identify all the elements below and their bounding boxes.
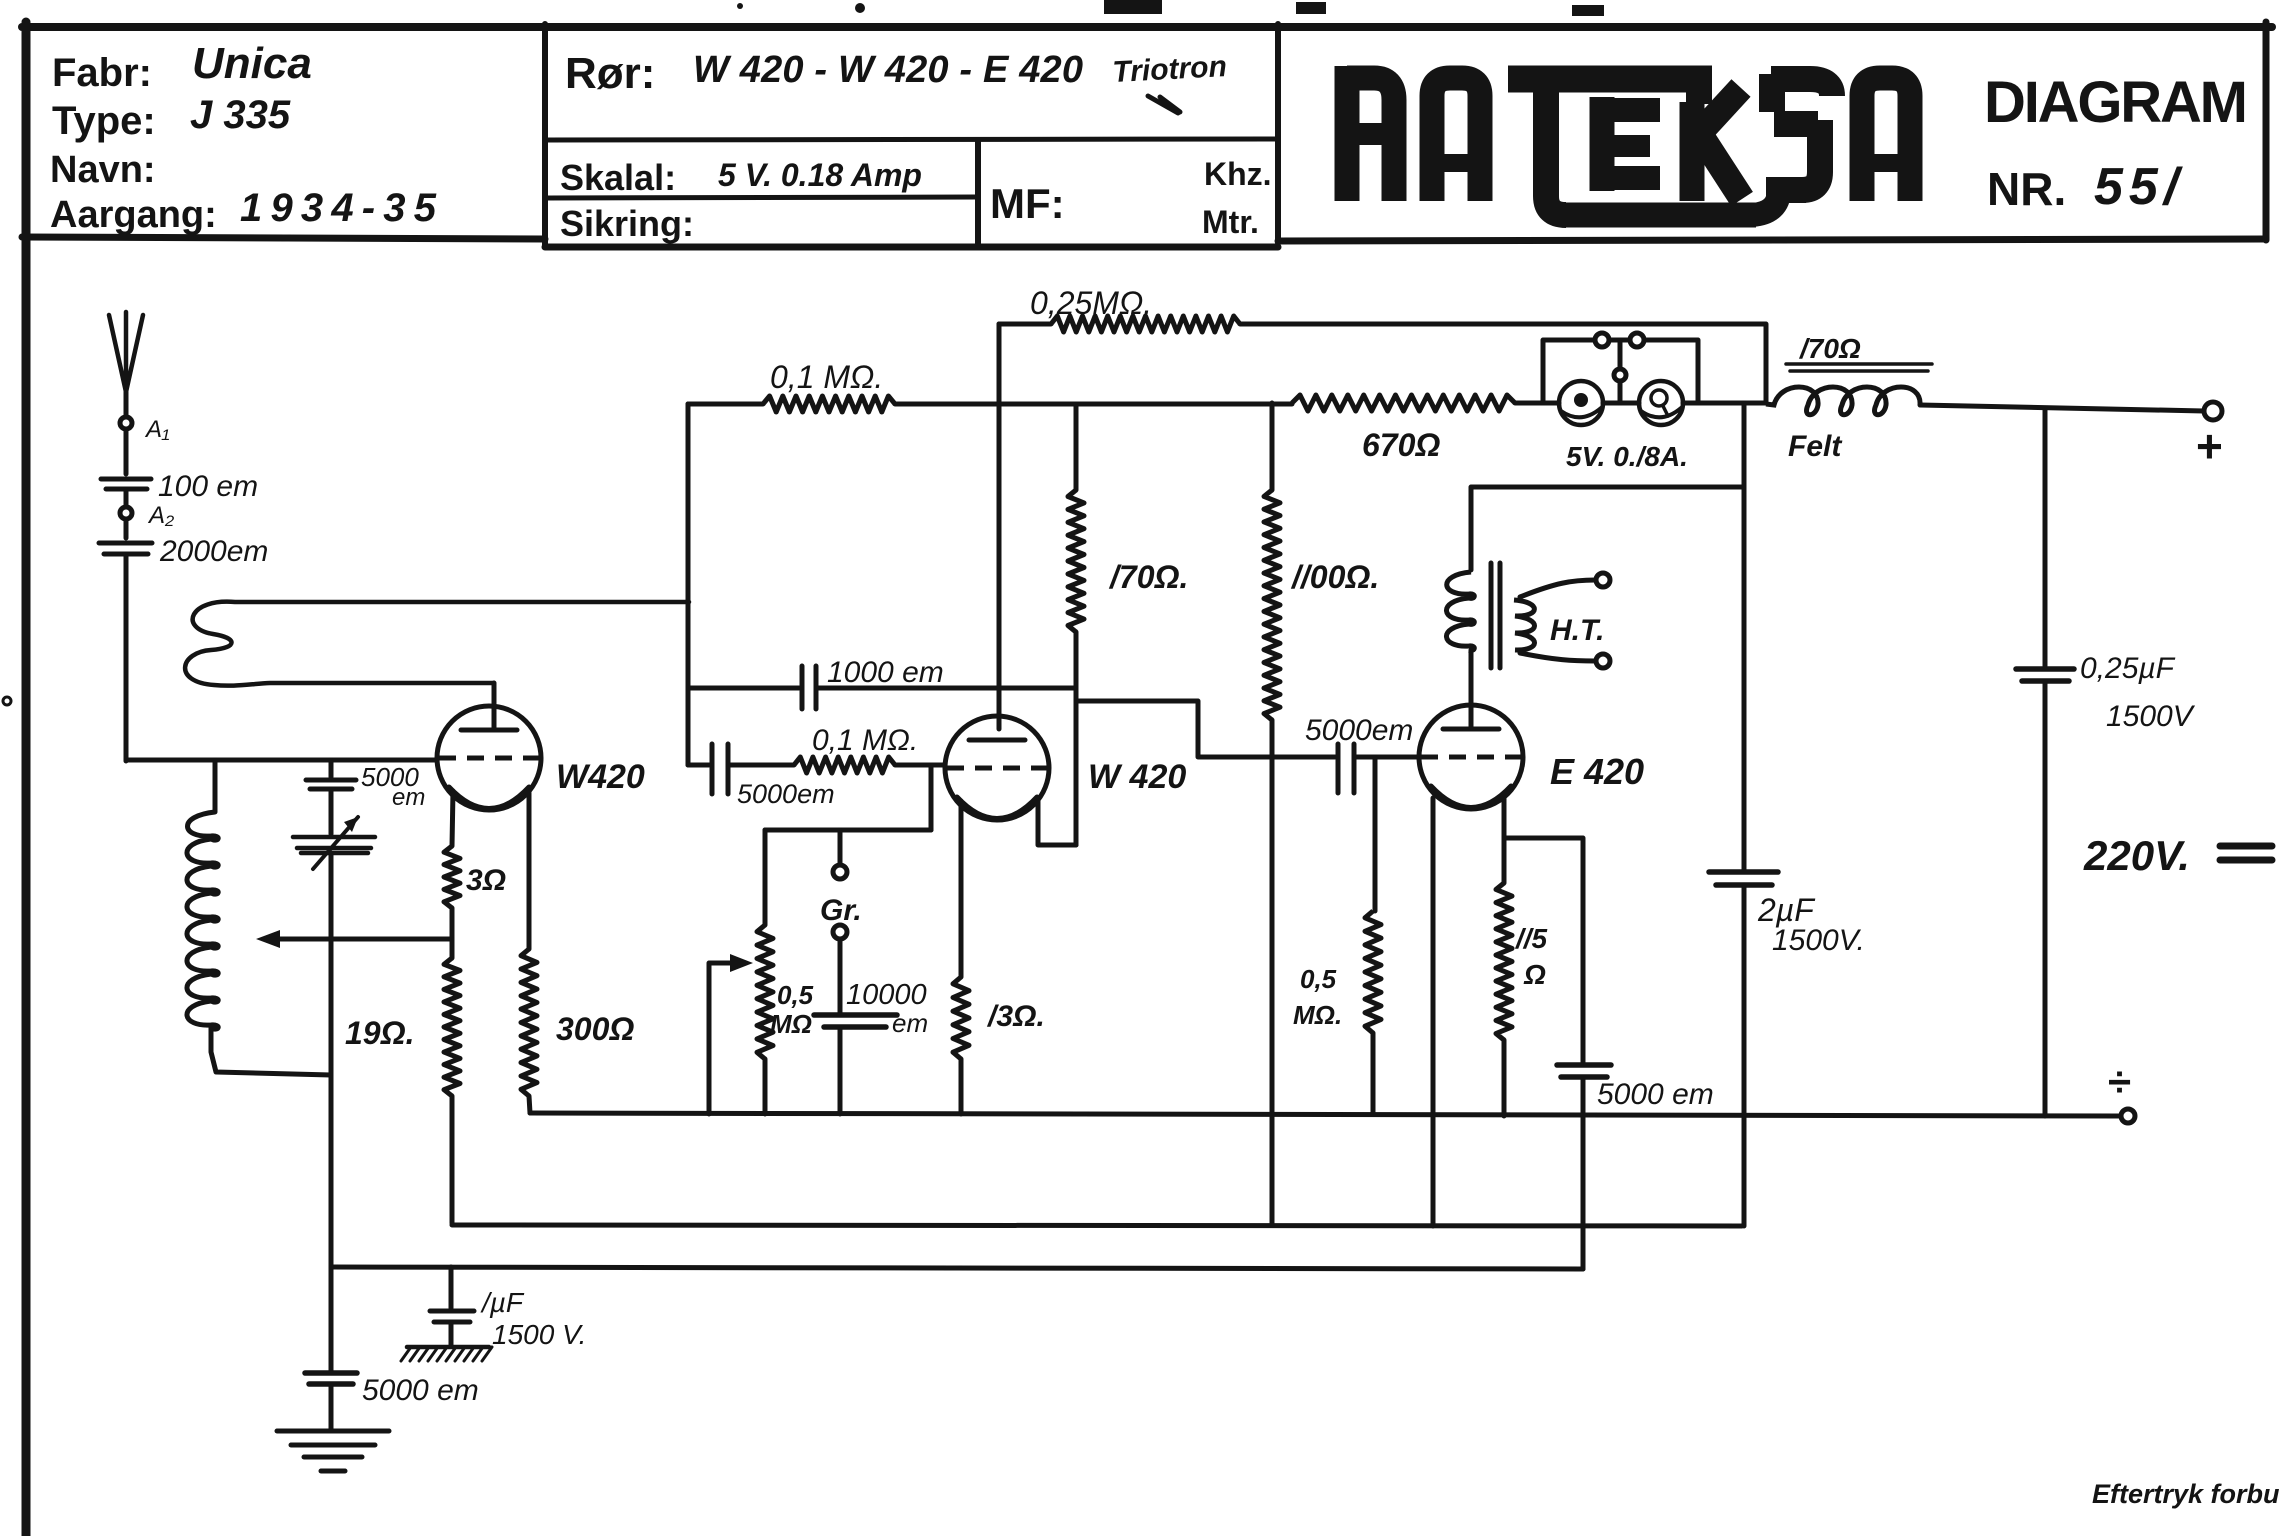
wire pot top bbox=[763, 830, 768, 925]
label Gr bbox=[820, 894, 862, 927]
wire lamp out bbox=[1683, 401, 1766, 406]
wire 115 top bbox=[1502, 838, 1507, 883]
wire fil right V1 bbox=[527, 793, 532, 949]
wire 19ohm down bbox=[452, 1096, 453, 1225]
speck 3 bbox=[1572, 5, 1604, 16]
terminal Gr lower bbox=[833, 925, 847, 939]
svg-text:A₂: A₂ bbox=[147, 502, 174, 529]
capacitor 2000cm bbox=[99, 543, 152, 554]
wire output coupling bbox=[1076, 701, 1335, 757]
label NR bbox=[1987, 163, 2066, 215]
lamp box bbox=[1543, 340, 1698, 403]
wire anode lead V2 bbox=[1038, 799, 1076, 845]
title block skalal underline bbox=[548, 197, 978, 198]
title block MF divider bbox=[975, 140, 981, 247]
wire cathode cap down bbox=[1581, 1077, 1586, 1269]
wire cap to resistor bbox=[688, 763, 794, 768]
speck 4 bbox=[737, 3, 865, 13]
tube V1 W420 bbox=[437, 706, 541, 810]
RATEKSA logo bbox=[1347, 66, 1910, 215]
label 5000cm coupling1 bbox=[737, 779, 835, 809]
svg-text:0,25MΩ.: 0,25MΩ. bbox=[1030, 285, 1152, 321]
wire gridleak top bbox=[1373, 757, 1378, 911]
svg-text:Sikring:: Sikring: bbox=[560, 203, 694, 244]
wire grid lead tube1 bbox=[492, 683, 497, 729]
svg-text:MF:: MF: bbox=[990, 180, 1065, 227]
resistor 1100 ohm bbox=[1264, 490, 1280, 720]
value skala bbox=[718, 157, 922, 193]
wire 1uF down bbox=[449, 1322, 454, 1345]
svg-text:/3Ω.: /3Ω. bbox=[986, 1000, 1045, 1033]
svg-text:E 420: E 420 bbox=[1550, 751, 1644, 792]
wire gr top line bbox=[765, 828, 931, 833]
svg-text:5000em: 5000em bbox=[1305, 714, 1413, 747]
terminal lamp R bbox=[1630, 333, 1644, 347]
svg-text:/70Ω.: /70Ω. bbox=[1108, 559, 1188, 595]
label 220V bbox=[2083, 832, 2190, 879]
label minus bbox=[2108, 1058, 2131, 1105]
svg-text:Ω: Ω bbox=[1523, 959, 1546, 990]
label 5000cm cathode bbox=[1597, 1078, 1714, 1111]
label DIAGRAM bbox=[1984, 70, 2248, 135]
svg-text:55/: 55/ bbox=[2094, 158, 2184, 216]
label 0.25M bbox=[1030, 285, 1152, 321]
resistor 300 ohm bbox=[521, 949, 537, 1096]
svg-text:H.T.: H.T. bbox=[1550, 614, 1604, 647]
resistor 0.1M lower bbox=[794, 757, 895, 773]
wire cap to ground bbox=[329, 1384, 334, 1430]
inductor HT primary bbox=[1446, 572, 1474, 650]
svg-text:÷: ÷ bbox=[2108, 1058, 2131, 1105]
svg-text:Navn:: Navn: bbox=[50, 149, 156, 191]
svg-text:100 em: 100 em bbox=[158, 470, 258, 503]
wire left vertical mid bbox=[329, 789, 334, 834]
label gridleak bbox=[1293, 964, 1342, 1030]
wire pot bottom bbox=[763, 1059, 768, 1114]
svg-text:em: em bbox=[892, 1008, 928, 1038]
wire 1100 top bbox=[1270, 403, 1275, 490]
label 1100 ohm bbox=[1290, 559, 1379, 595]
svg-text:1500V: 1500V bbox=[2106, 700, 2196, 733]
svg-text:1500 V.: 1500 V. bbox=[492, 1319, 586, 1350]
terminal A1 bbox=[120, 417, 132, 429]
title block ror row underline bbox=[545, 139, 1278, 140]
label 5000cm coupling2 bbox=[1305, 714, 1413, 747]
svg-text:2µF: 2µF bbox=[1757, 892, 1816, 928]
label 170 ohm bbox=[1108, 559, 1188, 595]
label 1000 cm bbox=[827, 656, 944, 689]
hatched ground bbox=[401, 1347, 492, 1361]
terminal minus bbox=[2121, 1109, 2135, 1123]
svg-text:Mtr.: Mtr. bbox=[1202, 204, 1259, 240]
terminal Gr upper bbox=[833, 865, 847, 879]
capacitor 5000cm bottom bbox=[305, 1373, 357, 1384]
svg-text:em: em bbox=[392, 784, 425, 811]
wire cathode node bbox=[1504, 838, 1583, 1063]
wire 01M line right bbox=[895, 402, 1292, 407]
wire vert688 bbox=[686, 404, 691, 765]
wire grid lead V2 bbox=[997, 324, 1002, 729]
label 3 ohm bbox=[466, 864, 506, 897]
wire pot wiper bbox=[709, 954, 753, 1114]
label 10000cm bbox=[846, 979, 928, 1038]
label W420 V2 bbox=[1088, 758, 1186, 796]
label Ror bbox=[565, 49, 655, 98]
svg-text:NR.: NR. bbox=[1987, 163, 2066, 215]
wire 13ohm down bbox=[959, 1059, 964, 1114]
variable capacitor bbox=[293, 817, 375, 869]
svg-text:670Ω: 670Ω bbox=[1362, 427, 1440, 463]
tube V3 E420 bbox=[1419, 705, 1523, 809]
pen flourish bbox=[1148, 96, 1180, 113]
inductor field coil Felt bbox=[1766, 387, 1920, 415]
wire tap arrow bbox=[256, 930, 452, 948]
svg-text:0,5: 0,5 bbox=[777, 980, 814, 1010]
label A2 bbox=[147, 502, 174, 529]
wire 1uF stub bbox=[449, 1267, 454, 1308]
value Triotron bbox=[1112, 50, 1228, 89]
svg-text:Fabr:: Fabr: bbox=[52, 51, 152, 95]
label Felt bbox=[1788, 430, 1843, 463]
label Type bbox=[52, 99, 156, 143]
wire 3-19 junction bbox=[450, 908, 455, 958]
wire cap to E420 bbox=[1354, 755, 1419, 760]
speck left margin bbox=[3, 697, 11, 705]
wire 1000cm line bbox=[688, 686, 1076, 691]
svg-text:5000 em: 5000 em bbox=[1597, 1078, 1714, 1111]
label 5000cm grid bbox=[361, 762, 425, 811]
title block divider 1 bbox=[542, 24, 548, 247]
wire antenna down bbox=[124, 392, 129, 417]
svg-text:J 335: J 335 bbox=[190, 93, 291, 137]
label 19 ohm bbox=[345, 1015, 414, 1051]
svg-text://00Ω.: //00Ω. bbox=[1290, 559, 1379, 595]
wire bus3 bbox=[331, 1267, 1583, 1269]
svg-text://5: //5 bbox=[1514, 923, 1548, 954]
wire left vertical low bbox=[329, 853, 334, 1371]
svg-text:220V.: 220V. bbox=[2083, 832, 2190, 879]
inductor tuning coil bbox=[187, 812, 218, 1029]
wire coil top lead bbox=[213, 760, 218, 812]
resistor 0.1M top bbox=[763, 396, 895, 412]
wire plus rail bbox=[1920, 405, 2204, 411]
wire HT sec bottom bbox=[1520, 653, 1595, 661]
wire left vertical top bbox=[329, 760, 334, 777]
terminal A2 bbox=[120, 507, 132, 519]
terminal HT bottom bbox=[1596, 654, 1610, 668]
terminal lamp center bbox=[1614, 369, 1626, 381]
wire 170 bottom bbox=[1074, 632, 1079, 845]
tube V2 W420 bbox=[945, 716, 1049, 820]
wire 170 top bbox=[1074, 404, 1079, 490]
wire bus1 bbox=[530, 1113, 2120, 1116]
label 5000cm bottom bbox=[362, 1374, 479, 1407]
svg-text:10000: 10000 bbox=[846, 979, 927, 1011]
wire fil left V3 bbox=[1431, 798, 1436, 1226]
label 115 ohm bbox=[1514, 923, 1548, 990]
label Fabr bbox=[52, 51, 152, 95]
resistor 0.5M gridleak bbox=[1365, 911, 1381, 1033]
svg-text:Khz.: Khz. bbox=[1204, 156, 1272, 192]
wire HT primary bottom bbox=[1469, 650, 1474, 729]
wire HT top line bbox=[1471, 487, 1744, 570]
svg-text:Triotron: Triotron bbox=[1112, 50, 1228, 89]
potentiometer 0.5M bbox=[757, 925, 773, 1059]
svg-text:Gr.: Gr. bbox=[820, 894, 862, 927]
label 100 cm bbox=[158, 470, 258, 503]
svg-text:Aargang:: Aargang: bbox=[50, 194, 217, 236]
wire fil left V2 bbox=[959, 801, 964, 977]
label felt 170 bbox=[1798, 333, 1861, 364]
label 0.1M lower bbox=[812, 724, 918, 757]
wire 115 bottom bbox=[1502, 1040, 1507, 1116]
inductor HT secondary bbox=[1514, 600, 1535, 650]
svg-text:5000em: 5000em bbox=[737, 779, 835, 809]
label Mtr bbox=[1202, 204, 1259, 240]
svg-text:A₁: A₁ bbox=[144, 416, 170, 443]
wire lamp center tap bbox=[1618, 340, 1623, 403]
label 2000 cm bbox=[159, 535, 268, 568]
label 2uF bbox=[1757, 892, 1865, 957]
wire 025uF vert bbox=[2043, 409, 2048, 1116]
svg-text:0,25µF: 0,25µF bbox=[2080, 652, 2176, 685]
svg-text:/70Ω: /70Ω bbox=[1798, 333, 1861, 364]
capacitor 1uF bbox=[430, 1311, 474, 1322]
value Unica bbox=[192, 39, 312, 88]
capacitor 5000cm coupling1 bbox=[712, 744, 728, 794]
value 551 bbox=[2094, 158, 2184, 216]
svg-text:300Ω: 300Ω bbox=[556, 1011, 634, 1047]
svg-text:1000 em: 1000 em bbox=[827, 656, 944, 689]
svg-text:0,1 MΩ.: 0,1 MΩ. bbox=[770, 359, 883, 395]
label Sikring bbox=[560, 203, 694, 244]
title block bottom line bbox=[22, 237, 2266, 247]
resistor 170 ohm bbox=[1068, 490, 1084, 632]
label Aargang bbox=[50, 194, 217, 236]
wire 300ohm down bbox=[529, 1096, 530, 1113]
capacitor 5000cm cathode bbox=[1557, 1065, 1611, 1077]
svg-text:2000em: 2000em bbox=[159, 535, 268, 568]
wire 1100 bottom bbox=[1270, 720, 1275, 1225]
capacitor 100cm bbox=[101, 479, 151, 489]
wire gr terminal stub bbox=[838, 830, 843, 865]
svg-text:W 420 - W 420 - E 420: W 420 - W 420 - E 420 bbox=[693, 49, 1083, 91]
wire 670 to lamp bbox=[1515, 401, 1559, 406]
wire 025M left bbox=[999, 322, 1051, 327]
svg-text:Type:: Type: bbox=[52, 99, 156, 143]
resistor 13 ohm bbox=[953, 977, 969, 1059]
border frame right (title area) bbox=[2263, 22, 2270, 240]
label Khz bbox=[1204, 156, 1272, 192]
wire coil bottom lead bbox=[211, 1028, 331, 1075]
wire gr lower bbox=[838, 939, 843, 1013]
label 1uF bbox=[480, 1287, 586, 1350]
wire 10000cm down bbox=[838, 1027, 843, 1114]
wire to tube2 bbox=[895, 763, 945, 768]
svg-text:MΩ: MΩ bbox=[770, 1009, 812, 1039]
label 13 ohm bbox=[986, 1000, 1045, 1033]
svg-text:Rør:: Rør: bbox=[565, 49, 655, 98]
wire bus2 bbox=[452, 1225, 1742, 1226]
terminal HT top bbox=[1596, 573, 1610, 587]
wire HT sec top bbox=[1520, 580, 1595, 597]
value J335 bbox=[190, 93, 291, 137]
svg-text:5000 em: 5000 em bbox=[362, 1374, 479, 1407]
resistor 0.25M bbox=[1051, 316, 1240, 332]
svg-text:Eftertryk forbud: Eftertryk forbud bbox=[2092, 1479, 2279, 1509]
lamp 1 bbox=[1559, 381, 1603, 425]
label Skalal bbox=[560, 157, 676, 198]
wire main bus bbox=[126, 758, 437, 763]
label HT bbox=[1550, 614, 1604, 647]
svg-text:+: + bbox=[2196, 420, 2223, 472]
lamp 2 bbox=[1639, 381, 1683, 425]
wire A2-cap bbox=[124, 519, 129, 761]
value Ror tubes bbox=[693, 49, 1083, 91]
wire between lamps bbox=[1603, 401, 1639, 406]
capacitor 1000cm bbox=[802, 666, 816, 709]
label pot 0.5M bbox=[770, 980, 814, 1039]
wire gridleak bottom bbox=[1371, 1033, 1376, 1113]
border frame left bbox=[22, 22, 31, 1536]
label MF bbox=[990, 180, 1065, 227]
resistor 670 ohm bbox=[1292, 395, 1515, 411]
svg-text:Unica: Unica bbox=[192, 39, 312, 88]
antenna bbox=[109, 312, 143, 392]
svg-text:19Ω.: 19Ω. bbox=[345, 1015, 414, 1051]
border frame top bbox=[22, 23, 2272, 31]
wire gr vert right bbox=[929, 765, 934, 830]
underline felt bbox=[1786, 364, 1932, 371]
label 0.1M top bbox=[770, 359, 883, 395]
label lamps bbox=[1566, 441, 1688, 472]
wire A1-cap bbox=[124, 429, 129, 507]
label 670 ohm bbox=[1362, 427, 1440, 463]
value 1934-35 bbox=[240, 186, 437, 230]
svg-text:W420: W420 bbox=[556, 758, 645, 796]
label W420 V1 bbox=[556, 758, 645, 796]
label eftertryk bbox=[2092, 1479, 2279, 1509]
svg-text:MΩ.: MΩ. bbox=[1293, 1000, 1342, 1030]
capacitor 10000cm bbox=[814, 1015, 897, 1027]
svg-text:0,5: 0,5 bbox=[1300, 964, 1337, 994]
svg-text:5 V. 0.18 Amp: 5 V. 0.18 Amp bbox=[718, 157, 922, 193]
svg-text:W 420: W 420 bbox=[1088, 758, 1186, 796]
speck 2 bbox=[1296, 2, 1326, 14]
wire Bplus vert bbox=[1742, 403, 1747, 1226]
svg-text:DIAGRAM: DIAGRAM bbox=[1984, 70, 2248, 135]
svg-text:0,1 MΩ.: 0,1 MΩ. bbox=[812, 724, 918, 757]
terminal lamp L bbox=[1595, 333, 1609, 347]
terminal plus bbox=[2204, 402, 2222, 420]
svg-text:5V. 0./8A.: 5V. 0./8A. bbox=[1566, 441, 1688, 472]
label A1 bbox=[144, 416, 170, 443]
ground main bbox=[277, 1431, 389, 1471]
svg-text:1500V.: 1500V. bbox=[1772, 924, 1865, 957]
wire 01M line left bbox=[688, 402, 763, 407]
label 025uF bbox=[2080, 652, 2196, 733]
label E420 bbox=[1550, 751, 1644, 792]
resistor 19 ohm bbox=[444, 958, 460, 1096]
svg-text:/µF: /µF bbox=[480, 1287, 525, 1318]
label Navn bbox=[50, 149, 156, 191]
HT core bbox=[1491, 563, 1500, 668]
svg-text:Felt: Felt bbox=[1788, 430, 1843, 463]
capacitor 5000cm coupling2 bbox=[1338, 744, 1354, 793]
svg-text:3Ω: 3Ω bbox=[466, 864, 506, 897]
label plus bbox=[2196, 420, 2223, 472]
capacitor 2uF bbox=[1709, 872, 1778, 885]
wire fil right V3 bbox=[1502, 798, 1507, 838]
label 300 ohm bbox=[556, 1011, 634, 1047]
capacitor 5000cm grid bbox=[306, 780, 356, 789]
label 220V equals bbox=[2220, 846, 2272, 860]
wire 025M right bbox=[1240, 324, 1766, 403]
title block divider 2 bbox=[1275, 24, 1281, 243]
speck 1 bbox=[1104, 0, 1162, 14]
resistor 3 ohm bbox=[444, 846, 460, 908]
capacitor 0.25uF bbox=[2016, 669, 2074, 681]
resistor 115 ohm bbox=[1496, 883, 1512, 1040]
svg-text:Skalal:: Skalal: bbox=[560, 157, 676, 198]
wire fil left V1 bbox=[452, 791, 453, 846]
inductor coupling coil bbox=[185, 602, 689, 686]
